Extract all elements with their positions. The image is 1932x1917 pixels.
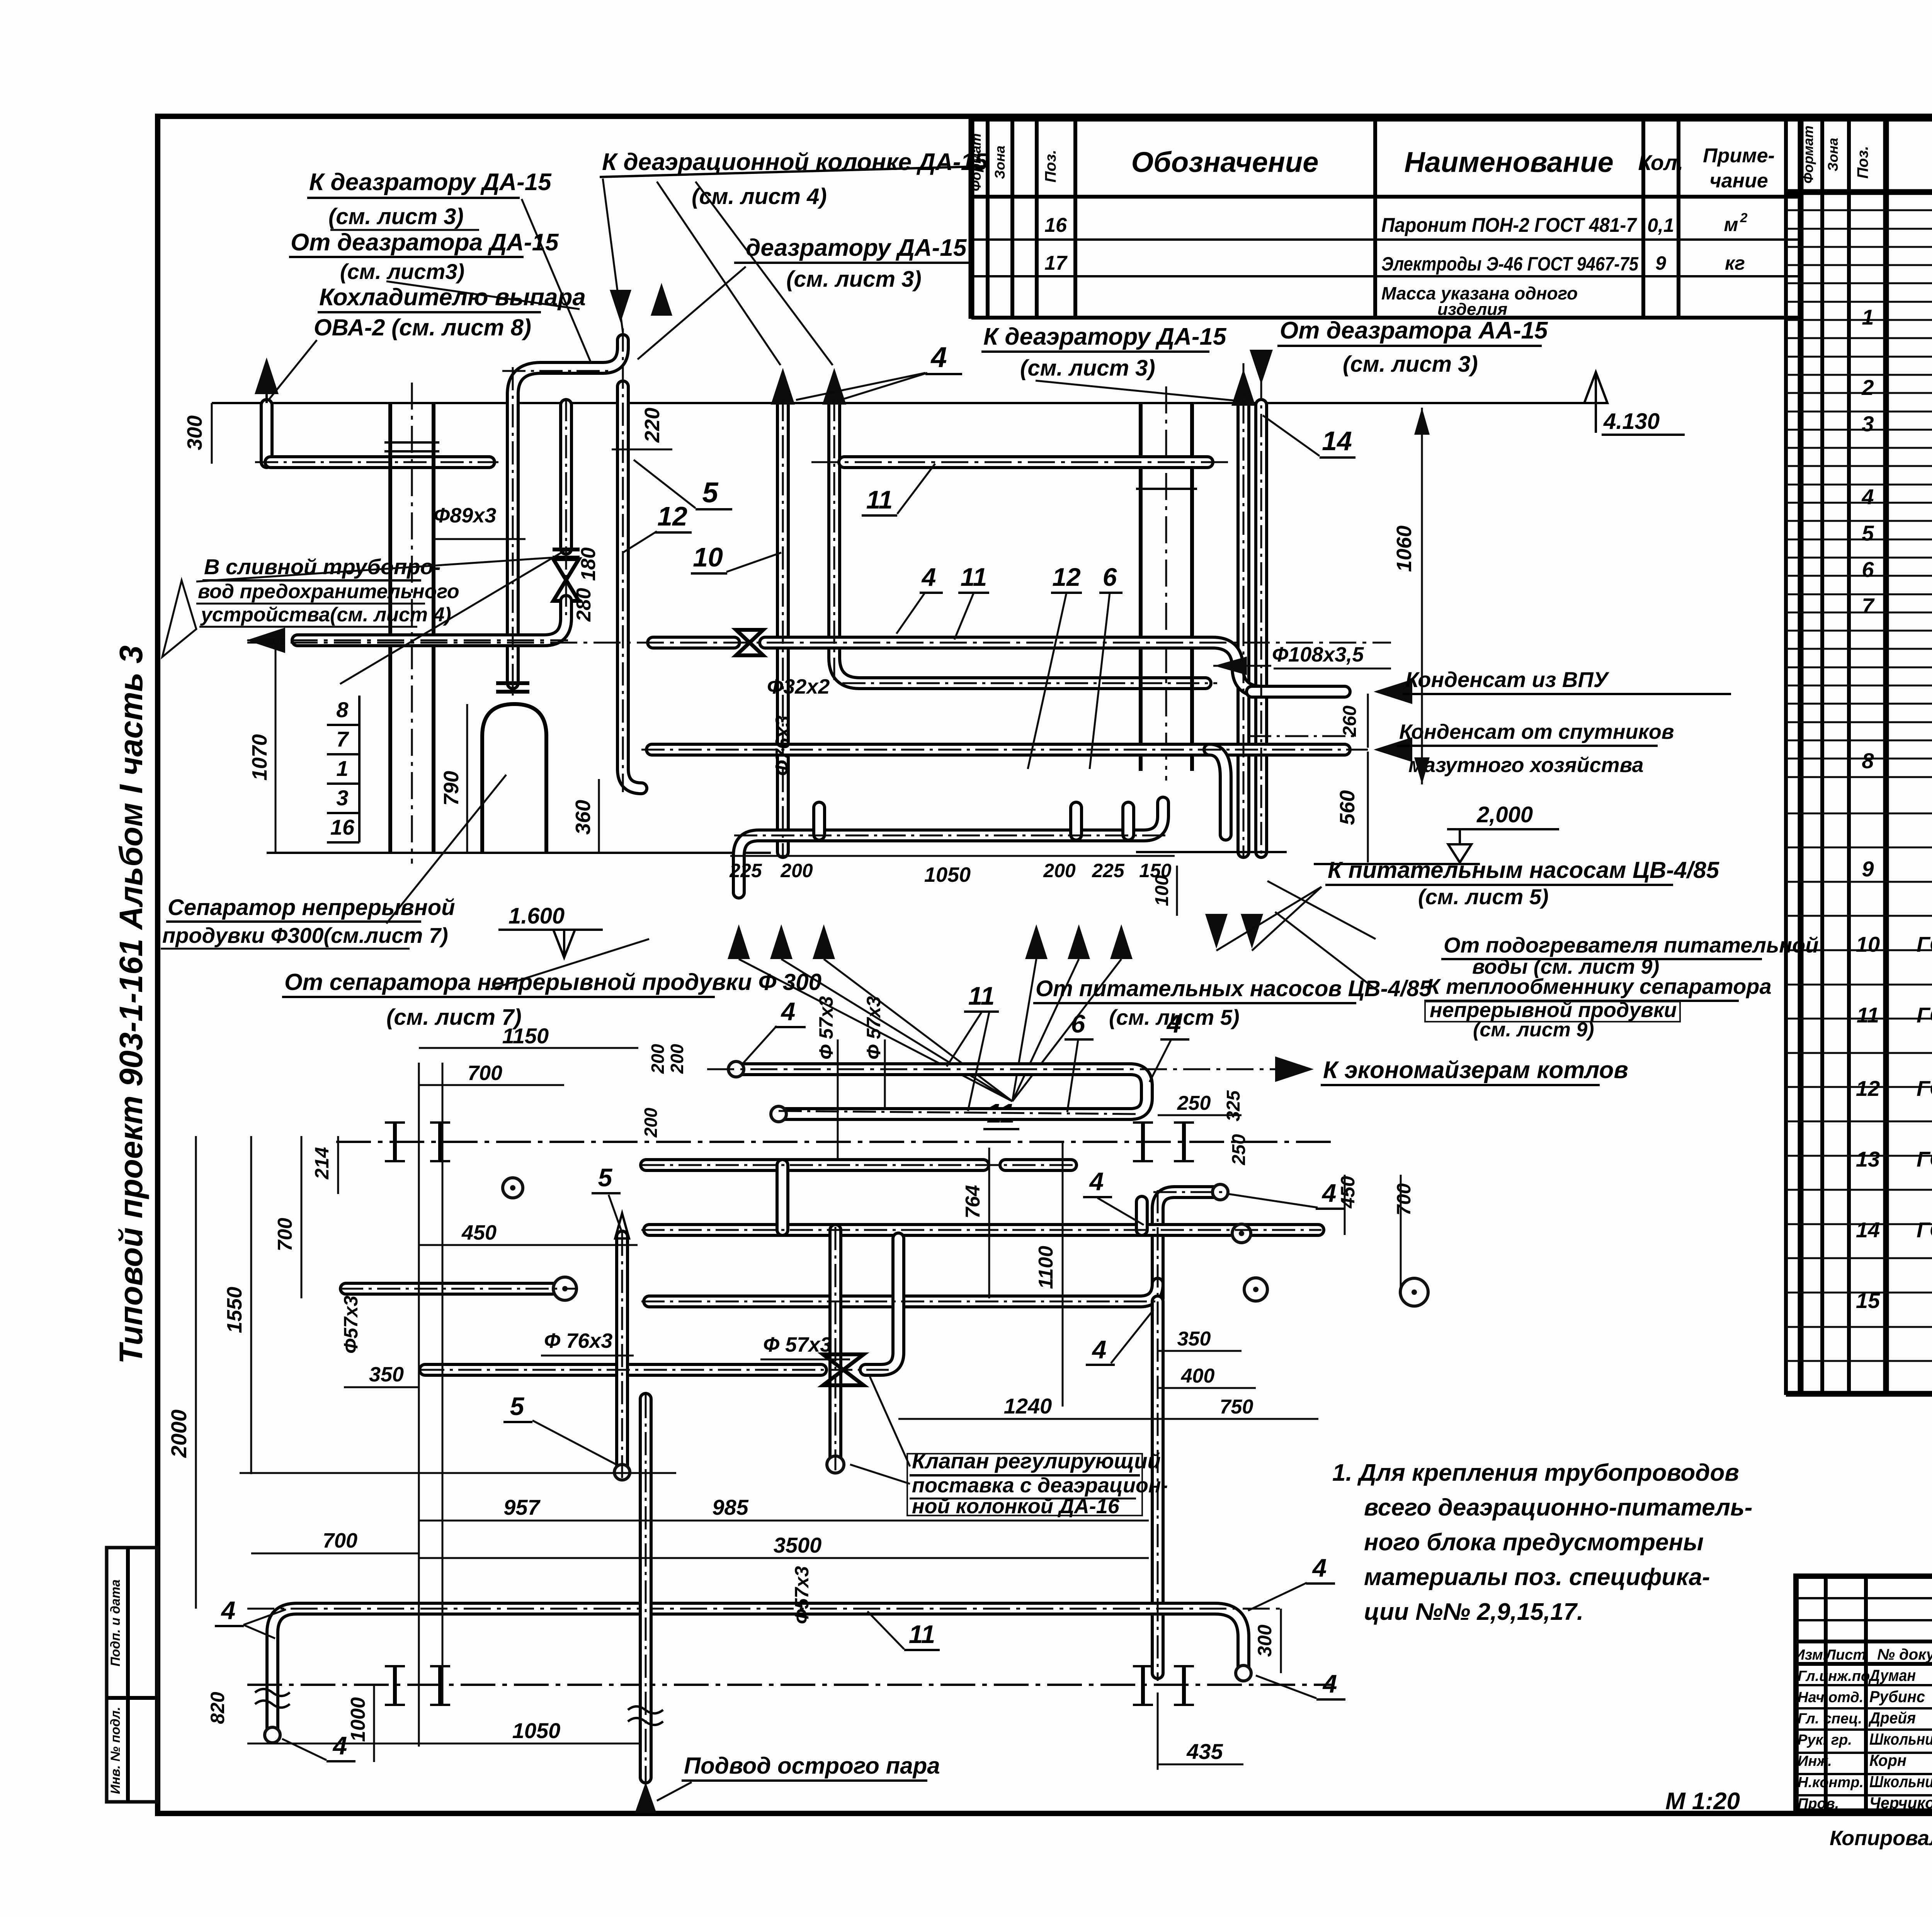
dims 957 985 [419,1495,1149,1521]
svg-text:Конденсат от спутников: Конденсат от спутников [1399,720,1674,743]
svg-text:764: 764 [962,1185,984,1219]
svg-text:Пров.: Пров. [1798,1796,1839,1812]
svg-text:12: 12 [1856,1076,1880,1101]
label separator vessel [161,775,506,949]
svg-text:Ф 76х3: Ф 76х3 [544,1329,612,1352]
svg-text:5: 5 [702,476,719,509]
ground line upper view [267,852,771,854]
svg-text:11: 11 [968,981,995,1010]
svg-text:(см. лист 3): (см. лист 3) [786,267,922,292]
dim f32x2 [767,675,830,698]
dim 250 top [1158,1092,1242,1115]
svg-text:Ф76х3: Ф76х3 [772,716,794,776]
svg-text:Поз.: Поз. [1854,146,1871,179]
svg-text:продувки Ф300(см.лист 7): продувки Ф300(см.лист 7) [162,923,448,947]
svg-text:(см. лист 3): (см. лист 3) [328,204,464,229]
table B rows text [1856,240,1932,1345]
svg-text:100: 100 [1152,875,1172,906]
callout 10 [691,542,781,573]
label Ot deaeratora DA-15 [289,229,580,309]
svg-text:Черчикова: Черчикова [1869,1794,1932,1812]
svg-text:8: 8 [1862,748,1874,773]
svg-text:Обозначение: Обозначение [1131,146,1319,178]
plan dim extension verticals [419,1063,442,1747]
svg-text:200: 200 [1043,860,1076,881]
svg-text:325: 325 [1223,1090,1244,1121]
plan: riser to y3015 [776,1165,789,1230]
svg-text:ГОСТ 10704-76: ГОСТ 10704-76 [1917,1218,1932,1242]
left margin rotated stamp text [113,645,149,1364]
dim 350 left [344,1363,419,1387]
note 1 text [1332,1459,1752,1625]
svg-text:(см. лист 7): (см. лист 7) [386,1005,522,1030]
position flag 4 upper [796,341,962,400]
svg-text:7: 7 [1862,594,1875,618]
table B header text [1800,126,1932,188]
plan: reducing valve bowtie [425,1354,864,1385]
svg-text:957: 957 [503,1495,541,1519]
svg-text:1060: 1060 [1393,526,1416,572]
condensate from fuel-oil satellites line [652,720,1674,777]
svg-text:2: 2 [1861,375,1874,400]
pipe 14 risers right [1231,350,1273,852]
svg-text:9: 9 [1655,252,1666,274]
svg-text:10: 10 [693,542,723,572]
svg-text:Гл. спец.: Гл. спец. [1798,1711,1862,1727]
plan: flanged axis bottom [247,1666,1333,1705]
svg-text:ции №№ 2,9,15,17.: ции №№ 2,9,15,17. [1364,1599,1583,1625]
label k teploobmenniku [1267,881,1772,1041]
svg-text:350: 350 [1177,1328,1211,1350]
svg-text:12: 12 [1052,563,1081,591]
svg-text:К деаэратору ДА-15: К деаэратору ДА-15 [983,323,1227,350]
svg-text:изделия: изделия [1437,300,1507,319]
svg-text:Конденсат из ВПУ: Конденсат из ВПУ [1405,667,1610,692]
horizontal pipe at deaerator base [270,455,489,469]
svg-text:(см. лист 3): (см. лист 3) [1020,356,1155,381]
svg-text:1: 1 [336,756,348,781]
label K deaeratoru DA-15 top left [307,169,591,363]
svg-text:От деазратора ДА-15: От деазратора ДА-15 [291,229,559,256]
plan: bottom long pipe 11 [247,1609,1283,1743]
svg-text:180: 180 [577,548,600,581]
svg-text:2,000: 2,000 [1476,802,1533,827]
svg-text:М 1:20: М 1:20 [1665,1788,1740,1815]
plan: control valve drop pipe [827,1230,844,1473]
svg-text:4: 4 [1322,1669,1337,1698]
svg-text:(см. лист 9): (см. лист 9) [1473,1019,1594,1041]
svg-text:0,1: 0,1 [1647,214,1674,236]
svg-text:4: 4 [1092,1335,1107,1364]
svg-text:(см. лист 4): (см. лист 4) [692,184,827,209]
svg-text:1240: 1240 [1004,1394,1052,1418]
specification table B grid [1786,117,1932,1395]
svg-text:К питательным насосам ЦВ-4/8: К питательным насосам ЦВ-4/85 [1328,857,1720,883]
svg-text:Рук. гр.: Рук. гр. [1798,1732,1852,1748]
mark 1.600 [498,903,603,958]
drain line arrow left [247,628,568,653]
plan: stub with cap right [1158,1184,1228,1298]
svg-text:ГОСТ 8732-70*: ГОСТ 8732-70* [1917,1003,1932,1027]
svg-text:всего деаэрационно-питатель-: всего деаэрационно-питатель- [1364,1494,1752,1521]
plan: economizer loop pipe [707,1056,1628,1122]
dim f76x3 [772,716,794,776]
svg-text:ГОСТ 8734-75: ГОСТ 8734-75 [1917,932,1932,956]
level mark 4.130 [1584,372,1685,435]
vent pipe to OVA-2 with up arrow [255,357,279,462]
svg-text:1050: 1050 [924,863,971,886]
svg-text:Ф89х3: Ф89х3 [434,504,496,527]
svg-text:11: 11 [1857,1003,1879,1027]
svg-text:11: 11 [961,563,987,591]
specification table A grid [971,117,1800,319]
svg-text:3: 3 [336,786,348,810]
dim 3500 [419,1533,1149,1558]
dim 300 right [1254,1609,1281,1673]
svg-text:Дрейя: Дрейя [1868,1709,1916,1727]
svg-text:1. Для крепления трубопров: 1. Для крепления трубопроводов [1332,1459,1739,1486]
svg-text:Приме-: Приме- [1703,145,1775,167]
dim 1240 [898,1394,1158,1419]
svg-text:700: 700 [274,1218,296,1252]
label Ot pitatelnyh nasosov [1033,976,1432,1029]
svg-text:ГОСТ 10704-76: ГОСТ 10704-76 [1917,1076,1932,1101]
below title block annotations [1665,1788,1932,1850]
svg-text:16: 16 [330,815,355,839]
svg-text:5: 5 [1862,521,1874,545]
upper piping view: datum line 4.130 [212,402,1596,404]
svg-text:вод предохранительного: вод предохранительного [198,580,459,603]
label K pitatelnym nasosam [1325,857,1720,909]
svg-text:Зона: Зона [1825,138,1841,172]
plan callouts 4 5 6 11 [215,981,1345,1761]
level 2.000 [1314,802,1559,864]
svg-text:От подогревателя питательной: От подогревателя питательной [1444,933,1818,957]
svg-text:Нач.отд.: Нач.отд. [1798,1689,1863,1706]
svg-text:4: 4 [1861,485,1874,509]
dim f108x3.5 [1213,643,1391,675]
plan: standpipe 5 [614,1213,630,1480]
label Koxladitelyu vypara [269,284,586,400]
rotated dims 325 250 450 700 [1223,1090,1415,1296]
svg-text:214: 214 [311,1147,333,1179]
svg-text:м: м [1724,214,1738,235]
svg-text:Ф 57х3: Ф 57х3 [815,996,837,1060]
svg-text:15: 15 [1856,1288,1880,1313]
svg-text:К теплообменнику сепаратора: К теплообменнику сепаратора [1427,974,1772,998]
callout 5 [634,460,732,509]
svg-text:Электроды Э-46 ГОСТ 9467-75: Электроды Э-46 ГОСТ 9467-75 [1381,253,1639,275]
svg-text:Ф108х3,5: Ф108х3,5 [1272,643,1364,666]
rotated dims 764 1100 [962,1142,1063,1407]
svg-text:Паронит ПОН-2 ГОСТ 481-7: Паронит ПОН-2 ГОСТ 481-7 [1381,214,1637,236]
svg-text:360: 360 [571,800,595,835]
svg-text:деазратору ДА-15: деазратору ДА-15 [746,235,967,261]
svg-text:Лист: Лист [1825,1647,1866,1663]
dim 300 [183,403,212,464]
svg-text:200: 200 [641,1107,661,1138]
svg-text:4: 4 [332,1731,347,1760]
svg-text:1150: 1150 [502,1024,549,1048]
plan: steam supply riser [628,1399,940,1813]
svg-text:материалы поз. специфика-: материалы поз. специфика- [1364,1564,1710,1590]
svg-text:Наименование: Наименование [1404,146,1614,178]
position flag 8 7 1 3 16 [327,549,568,842]
svg-text:Типовой проект 903-1-161: Типовой проект 903-1-161 Альбом I часть … [113,645,149,1364]
svg-text:6: 6 [1071,1009,1086,1038]
svg-text:поставка с деаэрацион-: поставка с деаэрацион- [912,1474,1168,1497]
svg-text:К деазратору ДА-15: К деазратору ДА-15 [309,169,552,196]
svg-text:1: 1 [1862,305,1874,329]
plan: header y3368 with elbow [649,1284,1158,1301]
dims 350 400 750 right [1158,1328,1318,1419]
svg-text:Корн: Корн [1869,1751,1906,1769]
svg-text:От питательных насосов ЦВ-4: От питательных насосов ЦВ-4/85 [1036,976,1432,1001]
svg-text:Ф 57х3: Ф 57х3 [763,1333,832,1356]
svg-text:4: 4 [221,1596,236,1624]
svg-text:1.600: 1.600 [509,903,565,929]
svg-text:14: 14 [1856,1218,1880,1242]
svg-text:1000: 1000 [347,1697,369,1742]
table B fine row rules [1786,210,1932,1395]
rotated dims 820 1000 [207,1685,374,1762]
svg-text:4: 4 [1089,1167,1104,1196]
plan diameter labels [340,996,885,1624]
feed pump branch arrows [728,887,1321,1101]
svg-text:700: 700 [468,1061,502,1085]
svg-text:400: 400 [1181,1365,1215,1387]
dim f89x3 [434,504,526,539]
svg-text:Ф57х3: Ф57х3 [340,1296,362,1354]
svg-text:2: 2 [1740,211,1748,225]
callout 12 [623,501,692,553]
title block text [1794,1590,1932,1813]
svg-text:Кол.: Кол. [1638,150,1684,175]
svg-text:Сепаратор непрерывной: Сепаратор непрерывной [168,895,455,920]
svg-text:Подп. и дата: Подп. и дата [108,1579,123,1666]
separator inlet flange [496,683,529,692]
label Ot deaeratora AA-15 [1277,317,1548,377]
ground line right part [1136,851,1287,853]
svg-text:4: 4 [1321,1179,1337,1207]
label v slivnoy truboprovod [162,555,553,657]
svg-text:Кохладителю выпара: Кохладителю выпара [319,284,586,311]
dims 225-200-1050-200-225-150 [729,856,1175,886]
svg-text:1050: 1050 [512,1718,561,1743]
dim 790 [440,704,467,853]
dim 1150 [419,1024,638,1048]
feed main with control valve f32x2 [247,630,1391,692]
dim 1050 bottom [247,1718,641,1744]
svg-text:3: 3 [1862,412,1874,436]
dim 220 [612,408,672,449]
svg-text:280: 280 [573,588,595,622]
plan: fitting circles right [503,1178,1428,1306]
svg-text:мазутного хозяйства: мазутного хозяйства [1408,754,1644,777]
svg-text:Клапан регулирующий: Клапан регулирующий [912,1449,1161,1473]
title block frame [1796,1576,1932,1811]
svg-text:8: 8 [336,697,349,722]
callout 11 bottom fan [983,1098,1019,1129]
svg-text:устройства(см. лист 4): устройства(см. лист 4) [200,604,451,626]
svg-text:4: 4 [921,563,936,591]
svg-text:560: 560 [1336,790,1359,825]
svg-text:Думан: Думан [1868,1666,1916,1684]
dim 1070 [248,643,276,853]
svg-text:985: 985 [712,1495,748,1519]
svg-text:3500: 3500 [774,1533,822,1557]
svg-text:Н.контр.: Н.контр. [1798,1774,1864,1791]
svg-text:300: 300 [183,415,206,450]
svg-text:От деазратора АА-15: От деазратора АА-15 [1280,317,1548,344]
pipe centerlines upper [255,328,1368,856]
plan: drop to lower header [866,1238,898,1370]
svg-text:Поз.: Поз. [1042,150,1059,183]
svg-text:Инж.: Инж. [1798,1753,1832,1769]
svg-text:790: 790 [440,771,463,806]
svg-text:700: 700 [1393,1183,1415,1216]
plan: flanged header axis top [336,1123,1333,1161]
svg-text:6: 6 [1103,563,1117,591]
label K deaeratsionnoy kolonke DA-15 [600,149,989,365]
left rotated dims 214 700 1550 2000 [167,1136,676,1609]
svg-text:450: 450 [461,1221,497,1244]
svg-text:(см. лист 5): (см. лист 5) [1418,885,1549,909]
svg-text:4: 4 [781,997,796,1026]
svg-text:10: 10 [1856,932,1880,956]
svg-text:820: 820 [207,1692,228,1724]
specification table A text [968,133,1775,319]
dim 700 top [419,1061,564,1085]
plan: small branch elbow top right [1135,1202,1149,1230]
callout 11 upper pipe [862,464,935,515]
svg-text:220: 220 [641,408,664,443]
pipe 11 upper run [811,455,1229,469]
svg-text:2000: 2000 [167,1410,191,1458]
svg-text:ной колонкой ДА-16: ной колонкой ДА-16 [912,1495,1120,1518]
svg-text:11: 11 [909,1620,935,1648]
callout 14 [1263,415,1355,458]
svg-text:(см. лист 3): (см. лист 3) [1343,352,1478,377]
svg-text:Подвод острого пара: Подвод острого пара [684,1753,940,1779]
svg-text:Рубинс: Рубинс [1869,1687,1925,1706]
svg-text:4.130: 4.130 [1603,409,1660,434]
svg-text:200: 200 [667,1044,687,1074]
svg-text:450: 450 [1337,1176,1359,1209]
label ot podogrevatelya [1441,933,1818,978]
suction header to feed pumps [739,803,1163,893]
rotated 200 dims top [641,1044,687,1138]
svg-text:№ докум.: № докум. [1877,1646,1932,1663]
dim 260 [1340,694,1368,748]
left margin column: inventory boxes [107,1548,157,1802]
svg-text:11: 11 [866,485,893,514]
svg-text:4: 4 [930,341,947,373]
svg-text:17: 17 [1044,252,1068,274]
dim 100 [1152,866,1177,916]
svg-text:Школьников: Школьников [1869,1772,1932,1791]
gate valve 8 on drain [298,405,580,640]
risers 10 and 12 with arrows [771,368,1206,852]
svg-text:Изм.: Изм. [1794,1647,1827,1663]
blowdown drop pipe [623,386,641,788]
svg-text:К экономайзерам котлов: К экономайзерам котлов [1323,1057,1628,1084]
svg-text:225: 225 [1092,860,1125,881]
svg-text:ОВА-2 (см. лист 8): ОВА-2 (см. лист 8) [314,315,531,340]
dim 360 [571,779,599,853]
svg-text:7: 7 [336,727,349,751]
svg-text:чание: чание [1709,170,1768,192]
svg-text:1550: 1550 [223,1287,246,1333]
svg-text:750: 750 [1220,1396,1253,1418]
dim 700 lower left [251,1529,419,1553]
plan: left stub with fitting [346,1277,577,1300]
deaerator column body [384,383,439,864]
svg-text:6: 6 [1862,557,1874,582]
svg-text:250: 250 [1229,1134,1249,1165]
dim 1060 [1393,408,1430,784]
svg-text:1070: 1070 [248,734,271,781]
svg-text:ного блока предусмотрены: ного блока предусмотрены [1364,1529,1704,1556]
svg-text:ГОСТ 10704-76: ГОСТ 10704-76 [1917,1147,1932,1171]
label deaeratoru DA-15 mid [638,235,974,359]
svg-text:225: 225 [729,860,762,881]
svg-text:700: 700 [323,1529,357,1552]
svg-text:260: 260 [1340,706,1360,737]
svg-text:(см. лист3): (см. лист3) [340,259,464,284]
svg-text:5: 5 [598,1163,613,1192]
label ot separatora neprer. produvki [282,939,821,1030]
svg-text:Ф32х2: Ф32х2 [767,675,830,698]
callouts 4 11 12 6 [896,563,1122,769]
svg-text:14: 14 [1322,426,1352,456]
dim 435 bottom right [1158,1692,1243,1770]
svg-text:Зона: Зона [992,146,1008,179]
svg-text:От сепаратора непрерывной прод: От сепаратора непрерывной продувки Ф 300 [284,969,821,995]
svg-text:12: 12 [657,501,687,531]
label K deaeratoru DA-15 (table side) [981,323,1240,401]
svg-text:200: 200 [648,1044,668,1074]
svg-text:9: 9 [1862,857,1874,881]
elbow down to pumps right [1209,750,1226,835]
svg-text:кг: кг [1725,252,1745,274]
svg-text:350: 350 [369,1363,404,1386]
svg-text:200: 200 [780,860,813,881]
svg-text:Копировал: Туки: Копировал: Туки [1830,1827,1932,1850]
svg-text:Инв. № подл.: Инв. № подл. [108,1707,123,1794]
svg-text:5: 5 [510,1392,525,1420]
svg-text:1100: 1100 [1035,1246,1057,1289]
svg-text:16: 16 [1044,214,1067,236]
svg-text:Ф 57х3: Ф 57х3 [863,996,884,1060]
svg-text:Формат: Формат [1800,126,1816,184]
deaerator column 2 [1136,386,1197,781]
svg-text:435: 435 [1186,1739,1223,1764]
pipe centerlines lower [340,1111,1321,1785]
svg-text:13: 13 [1856,1147,1880,1171]
svg-text:Школьников: Школьников [1869,1730,1932,1748]
svg-text:300: 300 [1254,1624,1276,1657]
dim 180/280 [573,548,600,622]
svg-text:4: 4 [1166,1009,1181,1038]
separator feed pipe with return bend [513,283,672,683]
svg-text:Ф57х3: Ф57х3 [791,1566,813,1624]
label klapan reguliruyushchiy [850,1376,1168,1518]
svg-text:Гл.инж.по: Гл.инж.по [1798,1668,1870,1684]
condensate from VPU line [1252,667,1731,704]
svg-text:4: 4 [1312,1553,1327,1582]
dim 450 [419,1221,638,1245]
